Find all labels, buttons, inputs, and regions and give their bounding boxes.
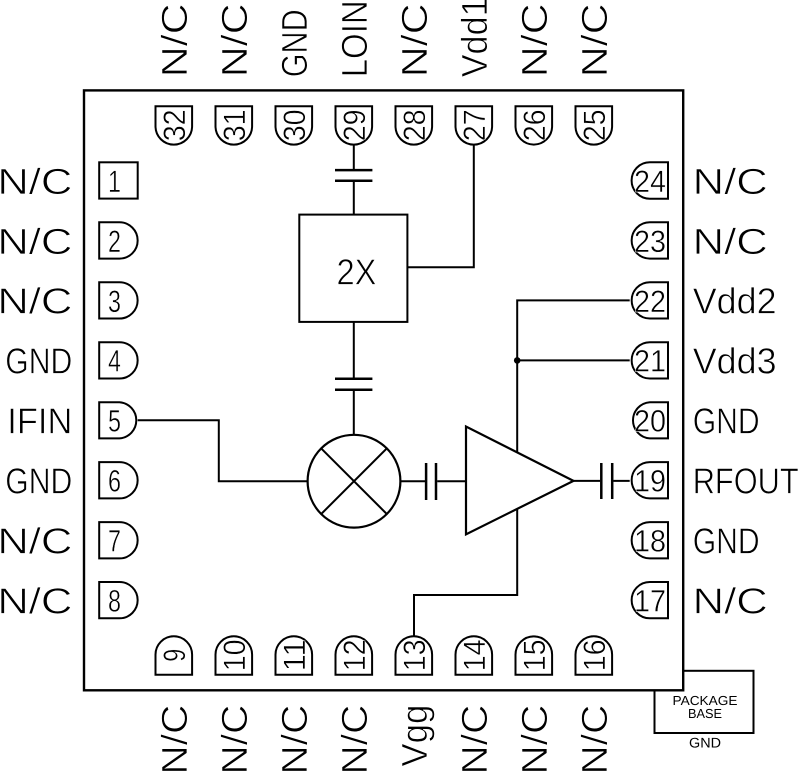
svg-text:18: 18 (634, 524, 666, 559)
svg-text:7: 7 (108, 524, 121, 559)
svg-text:4: 4 (108, 344, 121, 379)
svg-text:20: 20 (634, 404, 666, 439)
svg-text:Vgg: Vgg (394, 705, 435, 767)
svg-text:26: 26 (517, 109, 552, 141)
svg-text:N/C: N/C (574, 705, 615, 772)
svg-text:GND: GND (693, 401, 760, 442)
svg-text:Vdd1: Vdd1 (454, 0, 495, 77)
svg-text:8: 8 (108, 584, 121, 619)
svg-text:25: 25 (577, 109, 612, 141)
svg-text:30: 30 (277, 109, 312, 141)
svg-text:13: 13 (397, 639, 432, 671)
svg-text:19: 19 (634, 464, 666, 499)
svg-text:N/C: N/C (394, 3, 435, 77)
svg-text:RFOUT: RFOUT (693, 461, 799, 502)
svg-text:3: 3 (108, 284, 121, 319)
svg-text:27: 27 (457, 109, 492, 141)
svg-text:11: 11 (277, 639, 312, 671)
svg-text:N/C: N/C (514, 3, 555, 77)
svg-text:GND: GND (5, 461, 72, 502)
svg-text:GND: GND (5, 341, 72, 382)
svg-text:N/C: N/C (693, 161, 768, 202)
svg-text:N/C: N/C (514, 705, 555, 772)
svg-text:2X: 2X (337, 251, 377, 292)
svg-text:28: 28 (397, 109, 432, 141)
svg-text:2: 2 (108, 224, 121, 259)
svg-text:29: 29 (337, 109, 372, 141)
svg-text:GND: GND (274, 9, 315, 77)
svg-text:N/C: N/C (0, 521, 72, 562)
svg-text:N/C: N/C (154, 705, 195, 772)
svg-text:LOIN: LOIN (334, 0, 375, 77)
svg-text:N/C: N/C (0, 281, 72, 322)
svg-text:N/C: N/C (0, 581, 72, 622)
svg-text:5: 5 (108, 404, 121, 439)
svg-text:24: 24 (634, 164, 666, 199)
svg-text:15: 15 (517, 639, 552, 671)
svg-text:N/C: N/C (574, 3, 615, 77)
svg-text:14: 14 (457, 639, 492, 671)
svg-text:N/C: N/C (693, 581, 768, 622)
svg-text:21: 21 (634, 344, 666, 379)
svg-text:22: 22 (634, 284, 666, 319)
svg-text:GND: GND (689, 734, 721, 750)
svg-text:GND: GND (693, 521, 760, 562)
svg-text:1: 1 (108, 164, 121, 199)
svg-text:N/C: N/C (154, 3, 195, 77)
svg-text:N/C: N/C (214, 3, 255, 77)
svg-text:31: 31 (217, 109, 252, 141)
svg-text:BASE: BASE (688, 706, 722, 721)
svg-text:12: 12 (337, 639, 372, 671)
svg-text:N/C: N/C (0, 221, 72, 262)
svg-text:6: 6 (108, 464, 121, 499)
svg-text:N/C: N/C (454, 705, 495, 772)
svg-text:23: 23 (634, 224, 666, 259)
svg-text:17: 17 (634, 584, 666, 619)
svg-text:N/C: N/C (693, 221, 768, 262)
svg-text:9: 9 (157, 649, 192, 662)
svg-text:16: 16 (577, 639, 612, 671)
svg-text:32: 32 (157, 109, 192, 141)
svg-text:N/C: N/C (334, 705, 375, 772)
svg-text:Vdd2: Vdd2 (693, 281, 777, 322)
svg-text:10: 10 (217, 639, 252, 671)
svg-text:N/C: N/C (214, 705, 255, 772)
svg-text:N/C: N/C (274, 705, 315, 772)
svg-text:N/C: N/C (0, 161, 72, 202)
svg-text:Vdd3: Vdd3 (693, 341, 777, 382)
svg-text:IFIN: IFIN (7, 401, 72, 442)
